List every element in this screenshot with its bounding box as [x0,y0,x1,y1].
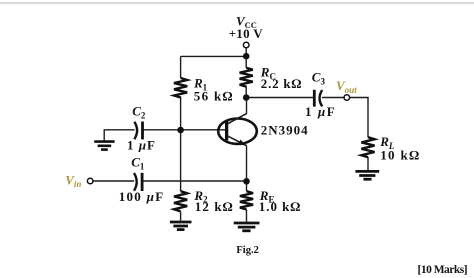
svg-text:1.0 kΩ: 1.0 kΩ [259,199,301,214]
wire RL bottom to ground [367,157,369,170]
resistor RE [240,191,253,209]
svg-text:2.2 kΩ: 2.2 kΩ [261,76,302,91]
svg-text:10 kΩ: 10 kΩ [380,147,420,162]
wire C1 to emitter node [143,180,247,182]
node Vcc junction [243,53,250,60]
wire emitter lead [246,145,248,181]
svg-text:Fig.2: Fig.2 [236,245,258,256]
ground RE [234,223,260,231]
node base [177,127,184,134]
capacitor C2 [134,122,142,140]
svg-text:2N3904: 2N3904 [261,123,309,138]
wire Vcc terminal drop [245,48,247,68]
wire base lead [181,129,226,131]
wire Vin terminal to C1 [93,180,134,182]
terminal Vin [87,178,93,184]
resistor R2 [174,191,187,211]
wire C2 to base node [143,129,181,131]
svg-text:1 µF: 1 µF [127,137,156,152]
wire emitter node to RE [246,181,248,191]
wire collector node to C3 [246,97,313,99]
svg-text:56 kΩ: 56 kΩ [194,89,234,104]
svg-text:12 kΩ: 12 kΩ [195,199,234,214]
wire R1 bottom to base node [180,96,182,130]
ground R2 [170,222,192,230]
node emitter [243,178,250,185]
wire RE bottom to ground [246,210,248,222]
wire R2 bottom to ground [180,211,182,220]
terminal Vcc [243,42,249,48]
wire R1 top lead [180,56,182,78]
wire Vcc rail [181,55,247,57]
resistor RL [361,137,374,157]
svg-text:[10 Marks]: [10 Marks] [418,264,468,276]
wire Vout terminal to RL [349,98,368,138]
ground C2 [94,142,114,150]
resistor R1 [174,78,187,97]
wire C3 to Vout terminal [322,97,344,99]
capacitor C1 [134,173,142,191]
svg-text:100 µF: 100 µF [119,189,165,204]
svg-text:+10 V: +10 V [229,26,264,41]
terminal Vout [344,95,350,101]
ground RL [355,171,379,179]
wire RC bottom to collector node [245,86,247,98]
wire C2 to ground [104,130,134,141]
node collector [243,94,250,101]
wire base node down to R2 [180,130,182,191]
capacitor C3 [314,90,322,107]
resistor RC [240,68,253,87]
wire collector lead [246,98,248,114]
svg-text:1 µF: 1 µF [305,104,336,119]
transistor Q1 2N3904 [218,113,257,145]
